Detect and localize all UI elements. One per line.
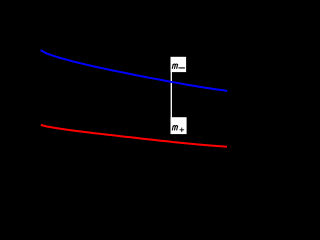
label box m- — [171, 57, 187, 72]
label box m+ — [171, 117, 187, 134]
label text m+ (italic m glyph drawn as strokes) — [172, 126, 183, 132]
label text m- (italic m glyph drawn as strokes) — [172, 64, 184, 68]
curve m+ (red, lower) — [41, 125, 227, 147]
vertical connector line at x=171.4 — [170, 57, 172, 134]
curve m- (blue, upper) — [41, 50, 228, 91]
